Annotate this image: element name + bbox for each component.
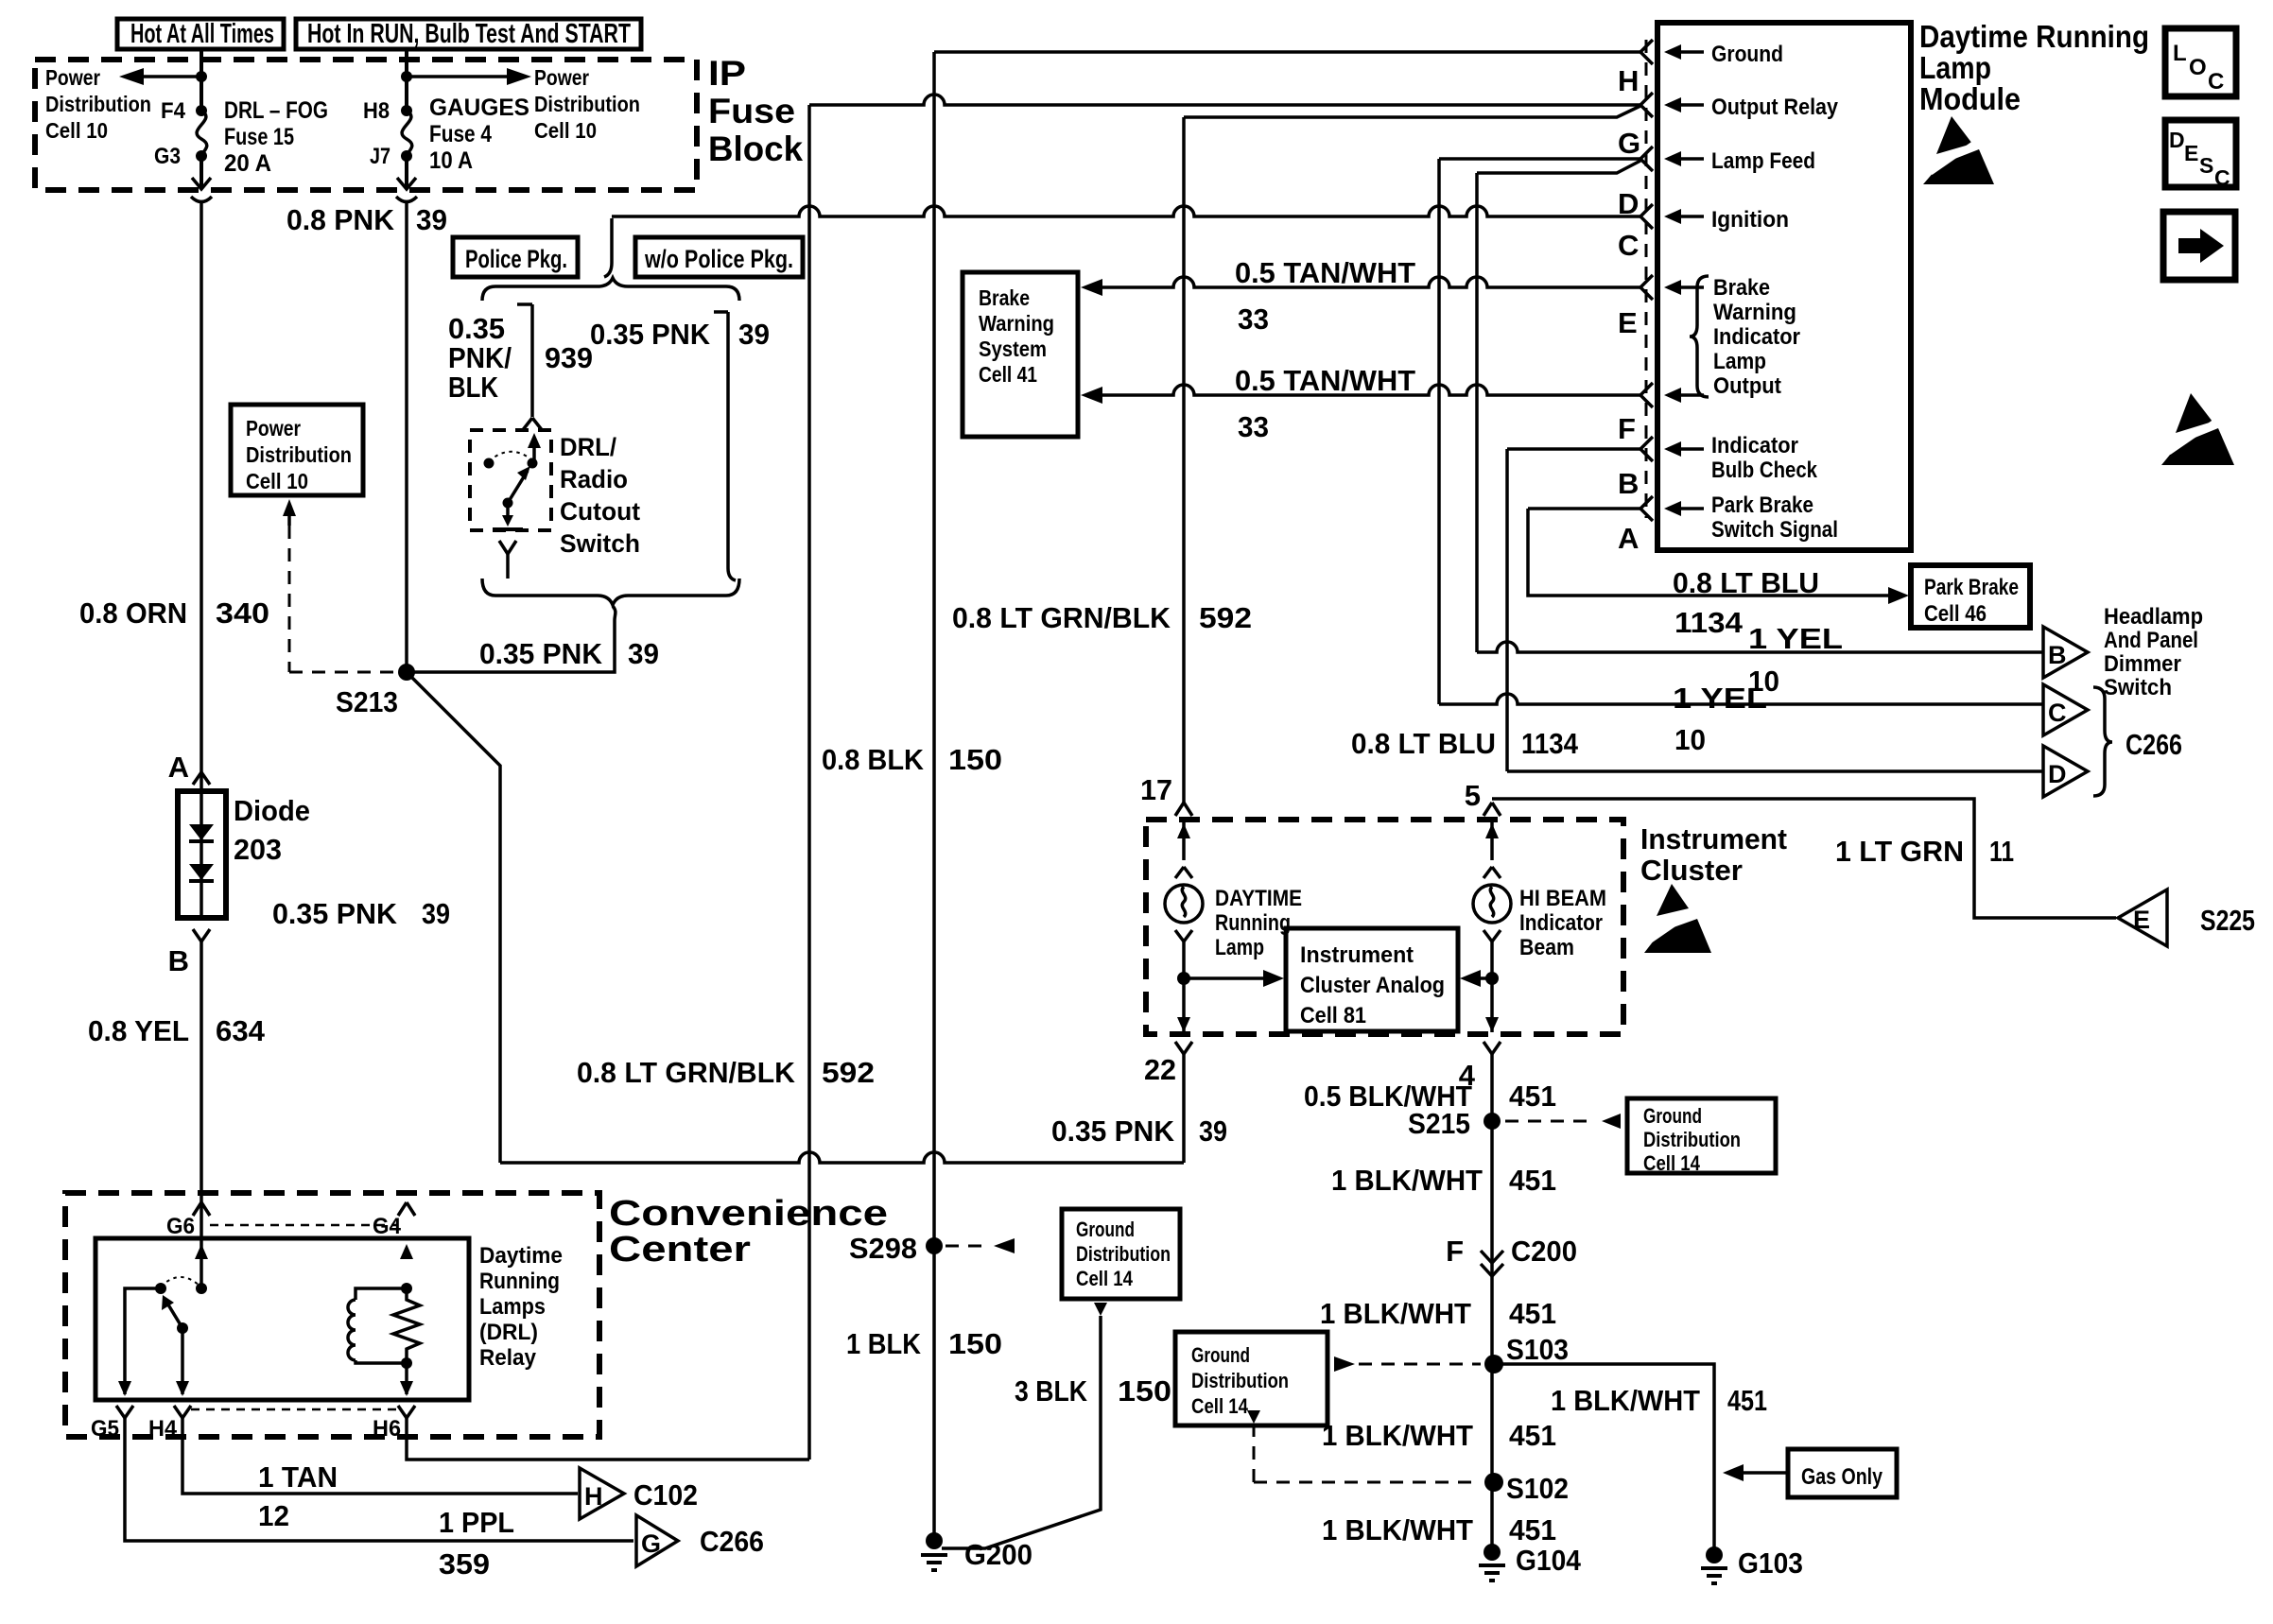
- svg-text:Fuse: Fuse: [708, 92, 795, 130]
- svg-text:Running: Running: [479, 1269, 560, 1294]
- wire label 1 BLK/WHT 451 between S103 S102: [1322, 1419, 1556, 1452]
- svg-text:G200: G200: [964, 1538, 1032, 1571]
- wire label 0.35 PNK 39 below S213: [272, 897, 450, 930]
- svg-text:H6: H6: [373, 1416, 401, 1442]
- Daytime Running Lamp Module title: [1919, 19, 2149, 116]
- svg-text:1 BLK/WHT: 1 BLK/WHT: [1551, 1384, 1700, 1417]
- svg-text:Cell 10: Cell 10: [534, 118, 597, 143]
- svg-text:S102: S102: [1506, 1472, 1569, 1505]
- connector A of diode: [168, 751, 210, 785]
- svg-text:Hot In RUN, Bulb Test And STAR: Hot In RUN, Bulb Test And START: [307, 19, 631, 49]
- svg-text:Lamps: Lamps: [479, 1294, 546, 1320]
- svg-text:Lamp: Lamp: [1713, 349, 1766, 374]
- svg-text:1 PPL: 1 PPL: [439, 1506, 514, 1539]
- IC pin 17 connector: [1140, 773, 1192, 816]
- svg-text:Lamp Feed: Lamp Feed: [1711, 148, 1815, 174]
- relay connector dashed link top: [210, 1224, 398, 1227]
- svg-text:17: 17: [1140, 773, 1172, 806]
- svg-text:Cell 41: Cell 41: [979, 362, 1037, 387]
- svg-text:634: 634: [216, 1014, 266, 1047]
- svg-text:39: 39: [1199, 1114, 1227, 1148]
- svg-text:Indicator: Indicator: [1713, 324, 1800, 350]
- svg-text:0.8 LT BLU: 0.8 LT BLU: [1351, 727, 1496, 760]
- svg-text:Cutout: Cutout: [560, 497, 640, 526]
- svg-text:Module: Module: [1919, 81, 2021, 116]
- svg-text:1 BLK/WHT: 1 BLK/WHT: [1331, 1164, 1483, 1197]
- svg-text:S298: S298: [849, 1232, 917, 1265]
- lamp feed wire 1: [1439, 157, 1640, 161]
- svg-text:0.5 TAN/WHT: 0.5 TAN/WHT: [1235, 364, 1415, 397]
- svg-text:0.8 PNK: 0.8 PNK: [286, 203, 395, 236]
- svg-text:0.8 LT GRN/BLK: 0.8 LT GRN/BLK: [952, 601, 1171, 634]
- svg-text:F: F: [1446, 1235, 1464, 1268]
- IP Fuse Block dashed box: [35, 60, 697, 190]
- HI BEAM Indicator bulb: [1473, 885, 1511, 923]
- Instrument Cluster dashed box: [1146, 820, 1623, 1034]
- svg-text:Power: Power: [45, 65, 100, 90]
- svg-text:H: H: [1618, 64, 1639, 97]
- DAYTIME Running Lamp bulb: [1165, 885, 1203, 923]
- wire S103 to G103: [1494, 1364, 1714, 1555]
- wire label 0.8 ORN 340: [79, 596, 269, 630]
- wire label 0.5 BLK/WHT 451: [1304, 1080, 1556, 1113]
- svg-text:Power: Power: [534, 65, 589, 90]
- ESD symbol inside instrument cluster: [1644, 884, 1711, 953]
- svg-text:203: 203: [234, 833, 282, 866]
- svg-text:3 BLK: 3 BLK: [1015, 1374, 1088, 1408]
- svg-text:Ground: Ground: [1643, 1104, 1702, 1128]
- svg-text:S: S: [2199, 153, 2213, 178]
- C266 brace and label: [2093, 687, 2182, 796]
- svg-text:Park Brake: Park Brake: [1711, 492, 1813, 518]
- wire pin H Ground row: [934, 50, 1640, 54]
- svg-text:H: H: [584, 1482, 603, 1511]
- svg-text:39: 39: [628, 637, 659, 670]
- wire label 1 TAN 12: [258, 1460, 338, 1532]
- svg-text:Power: Power: [246, 416, 301, 441]
- dimmer row C wire 1 YEL 10: [1439, 682, 2042, 756]
- svg-text:Fuse 4: Fuse 4: [429, 121, 492, 147]
- wire stub from ignition row down to brace: [604, 218, 612, 277]
- svg-text:B: B: [1618, 467, 1639, 500]
- svg-text:G104: G104: [1516, 1544, 1582, 1577]
- arrow to Power Distribution left: [119, 68, 207, 85]
- Convenience Center title: [609, 1194, 888, 1270]
- svg-text:G5: G5: [91, 1416, 119, 1442]
- svg-text:1134: 1134: [1521, 727, 1579, 760]
- wire label 1 BLK/WHT 451 above C200: [1331, 1164, 1556, 1197]
- svg-text:C: C: [2208, 69, 2224, 95]
- svg-text:S225: S225: [2200, 904, 2255, 937]
- in-line connector C200 pin F: [1446, 1235, 1577, 1276]
- svg-text:0.35 PNK: 0.35 PNK: [590, 318, 711, 351]
- Gas Only box: [1788, 1449, 1897, 1497]
- svg-text:Switch: Switch: [2104, 675, 2172, 700]
- Ground Distribution Cell 14 box right: [1627, 1098, 1776, 1175]
- relay switch contacts: [118, 1244, 208, 1396]
- wire H4 to C102 with tick: [182, 1418, 578, 1494]
- hi beam wire top: [1484, 820, 1501, 878]
- svg-text:1 YEL: 1 YEL: [1748, 622, 1843, 655]
- dashed reference S298 to ground distribution: [946, 1238, 1015, 1253]
- DRL/Radio Cutout Switch label: [560, 433, 640, 558]
- vertical wire to dimmer B row: [1475, 173, 1479, 652]
- wire label 1 LT GRN 11: [1835, 835, 2014, 868]
- G4 connector into convenience center: [373, 1202, 415, 1239]
- wire row F 0.5 TAN/WHT: [1081, 385, 1640, 404]
- svg-text:0.35 PNK: 0.35 PNK: [272, 897, 398, 930]
- splice S213: [336, 664, 415, 718]
- svg-text:Cluster Analog: Cluster Analog: [1300, 973, 1445, 998]
- fuse GAUGES value label: [429, 95, 529, 174]
- svg-text:592: 592: [1199, 601, 1252, 634]
- svg-text:Output: Output: [1713, 373, 1781, 399]
- ESD symbol at module: [1923, 116, 1994, 184]
- svg-text:DRL – FOG: DRL – FOG: [224, 97, 328, 124]
- svg-text:10 A: 10 A: [429, 147, 473, 174]
- wire from Hot At All Times to fuse F4: [200, 49, 203, 111]
- svg-text:Convenience: Convenience: [609, 1194, 888, 1234]
- splice S102: [1484, 1472, 1569, 1505]
- arrow icon box: [2163, 212, 2235, 280]
- IP Fuse Block title: [708, 54, 803, 168]
- svg-text:33: 33: [1238, 410, 1269, 443]
- Instrument Cluster Analog Cell 81 box: [1286, 928, 1458, 1031]
- Power Distribution Cell 10 box middle: [231, 405, 363, 495]
- module pin A Park Brake Switch Signal: [1618, 492, 1838, 555]
- wire label 1 PPL 359: [439, 1506, 514, 1581]
- ground G200: [921, 1532, 1032, 1571]
- svg-text:Cell 10: Cell 10: [45, 118, 108, 143]
- wire from IC 4 down to G104: [1490, 1054, 1494, 1552]
- svg-text:1 BLK/WHT: 1 BLK/WHT: [1320, 1297, 1471, 1330]
- diagonal wire from S213 to lower run: [407, 672, 500, 1163]
- svg-text:Cell 46: Cell 46: [1924, 601, 1987, 627]
- svg-text:C: C: [2048, 699, 2067, 727]
- diode 203 label: [234, 794, 310, 866]
- svg-text:Distribution: Distribution: [1191, 1369, 1289, 1392]
- svg-text:E: E: [2133, 906, 2150, 934]
- svg-text:Gas Only: Gas Only: [1801, 1464, 1883, 1490]
- svg-text:0.8 YEL: 0.8 YEL: [88, 1014, 189, 1047]
- fuse GAUGES H8/J7 symbol: [363, 98, 412, 169]
- Ground Distribution Cell 14 box left: [1062, 1209, 1180, 1299]
- connector B of diode: [168, 929, 210, 977]
- svg-text:Cell 14: Cell 14: [1191, 1394, 1249, 1418]
- svg-text:Daytime Running: Daytime Running: [1919, 19, 2149, 54]
- svg-text:HI BEAM: HI BEAM: [1519, 886, 1606, 911]
- svg-text:G4: G4: [373, 1214, 402, 1239]
- connector triangle D: [2043, 746, 2088, 797]
- dimmer row D wire: [1507, 769, 2042, 773]
- svg-text:0.35 PNK: 0.35 PNK: [479, 637, 603, 670]
- svg-text:Cluster: Cluster: [1640, 854, 1743, 887]
- svg-text:Daytime: Daytime: [479, 1243, 563, 1269]
- wire label 1 BLK/WHT 451 below C200: [1320, 1297, 1556, 1330]
- svg-text:IP: IP: [708, 54, 746, 93]
- fuse DRL-FOG F4/G3 symbol: [154, 98, 207, 169]
- svg-text:Police Pkg.: Police Pkg.: [465, 245, 567, 273]
- svg-text:Switch: Switch: [560, 529, 640, 558]
- svg-text:Cell 14: Cell 14: [1643, 1151, 1701, 1175]
- brake warning indicator lamp output label with brace: [1690, 275, 1800, 399]
- svg-text:D: D: [2048, 760, 2067, 788]
- svg-text:Relay: Relay: [479, 1345, 537, 1371]
- wire 0.8 YEL diode to convenience center: [200, 942, 203, 1288]
- svg-text:F: F: [1618, 412, 1636, 445]
- svg-text:39: 39: [422, 897, 450, 930]
- svg-text:10: 10: [1674, 723, 1706, 756]
- Power Distribution Cell 10 text right: [534, 65, 640, 143]
- svg-text:Distribution: Distribution: [534, 92, 640, 116]
- Convenience Center dashed box: [65, 1193, 599, 1437]
- label box Hot In RUN, Bulb Test And START: [296, 19, 641, 49]
- G6 connector into convenience center: [166, 1202, 210, 1239]
- svg-text:L: L: [2173, 41, 2187, 66]
- module pin D Lamp Feed: [1618, 147, 1815, 220]
- connector triangle E S225: [2118, 890, 2255, 946]
- IC pin 22 connector: [1144, 1042, 1192, 1086]
- wire label 0.8 LT GRN/BLK 592 lower: [577, 1056, 875, 1089]
- svg-text:A: A: [168, 751, 189, 784]
- wire from IC 22 down: [1182, 1054, 1186, 1163]
- fuse F4 value label: [224, 97, 328, 177]
- splice S298: [849, 1232, 943, 1265]
- dashed reference to S102: [1247, 1410, 1481, 1482]
- connector below cutout switch: [499, 541, 516, 579]
- svg-text:340: 340: [216, 596, 269, 630]
- connector above DRL cutout switch: [522, 418, 543, 431]
- long wire S213 branch to IC22 with hops: [500, 1152, 1184, 1163]
- svg-text:0.35: 0.35: [448, 312, 505, 345]
- svg-text:1 YEL: 1 YEL: [1673, 682, 1767, 715]
- svg-text:150: 150: [948, 743, 1002, 776]
- svg-text:C266: C266: [2126, 728, 2182, 761]
- svg-text:H4: H4: [148, 1416, 178, 1442]
- svg-text:PNK/: PNK/: [448, 341, 512, 374]
- location reference icon LOC: [2165, 28, 2236, 96]
- svg-text:G: G: [1618, 127, 1640, 160]
- svg-text:S103: S103: [1506, 1333, 1569, 1366]
- svg-text:592: 592: [822, 1056, 875, 1089]
- connector triangle B: [2043, 627, 2088, 678]
- svg-text:39: 39: [416, 203, 447, 236]
- svg-text:C102: C102: [633, 1478, 698, 1512]
- wire from brace down to S213: [413, 606, 616, 672]
- svg-text:Dimmer: Dimmer: [2104, 651, 2181, 677]
- wire label 0.8 LT GRN/BLK 592 upper: [952, 601, 1252, 634]
- wire below daytime lamp with arrow to cluster analog: [1175, 930, 1284, 1032]
- svg-text:Bulb Check: Bulb Check: [1711, 458, 1818, 483]
- svg-text:Warning: Warning: [979, 311, 1054, 336]
- w/o Police Pkg. label box: [635, 237, 803, 277]
- wire label 0.35 PNK 39 at S213: [479, 637, 659, 670]
- svg-text:Ground: Ground: [1076, 1218, 1135, 1241]
- second output relay wire to cluster pin 17: [1184, 106, 1640, 117]
- wire 3 BLK 150 to G200: [942, 1303, 1107, 1548]
- svg-text:B: B: [2048, 641, 2067, 669]
- dimmer row B wire 1 YEL 10: [1477, 622, 2042, 698]
- splice S215: [1408, 1107, 1501, 1140]
- wire label 0.5 TAN/WHT 33 row F: [1235, 364, 1415, 443]
- module pin C Ignition: [1618, 204, 1789, 262]
- svg-text:Distribution: Distribution: [1643, 1128, 1741, 1151]
- svg-text:Instrument: Instrument: [1300, 942, 1414, 968]
- svg-text:1 BLK/WHT: 1 BLK/WHT: [1322, 1513, 1473, 1546]
- svg-text:G103: G103: [1738, 1546, 1803, 1580]
- DAYTIME Running Lamp label: [1215, 886, 1302, 960]
- module pin G Output Relay: [1618, 93, 1839, 160]
- daytime running lamp wire top: [1175, 820, 1192, 878]
- Ground Distribution Cell 14 box middle: [1175, 1332, 1327, 1425]
- svg-text:451: 451: [1509, 1513, 1556, 1546]
- alternatives top brace: [482, 278, 739, 301]
- svg-text:Ignition: Ignition: [1711, 207, 1789, 233]
- svg-text:w/o Police Pkg.: w/o Police Pkg.: [644, 245, 793, 273]
- svg-text:Diode: Diode: [234, 794, 310, 827]
- wire label 1 BLK 150: [846, 1327, 1002, 1360]
- wire vertical to instrument cluster pin 17: [1182, 117, 1186, 803]
- ground G103: [1701, 1546, 1803, 1583]
- ESD symbol right side: [2161, 393, 2234, 465]
- wire B pink down to S213: [405, 201, 408, 672]
- hi beam wire down with arrow into cluster analog: [1460, 930, 1501, 1032]
- svg-text:Block: Block: [708, 130, 803, 168]
- vertical wire 0.8 LT BLU to dimmer D row: [1505, 449, 1509, 771]
- module pin H Ground: [1618, 40, 1783, 97]
- arrow from Gas Only to ground wire: [1723, 1464, 1786, 1481]
- dashed reference to S103: [1334, 1356, 1481, 1372]
- module connector dashed line: [1645, 40, 1648, 518]
- wire label 1 BLK/WHT 451 to G104: [1322, 1513, 1556, 1546]
- label box Hot At All Times: [117, 19, 284, 49]
- Instrument Cluster title: [1640, 822, 1787, 887]
- svg-text:0.8 LT GRN/BLK: 0.8 LT GRN/BLK: [577, 1056, 796, 1089]
- svg-text:Headlamp: Headlamp: [2104, 604, 2203, 630]
- wire label 0.8 PNK 39: [286, 203, 447, 236]
- wire J7 to IP box exit arrow: [396, 156, 417, 202]
- svg-text:H8: H8: [363, 98, 390, 124]
- IC pin 5 connector: [1465, 779, 1501, 816]
- wire label 0.8 LT BLU 1134 left: [1351, 727, 1579, 760]
- DRL/Radio Cutout Switch internals: [484, 433, 542, 529]
- svg-text:DRL/: DRL/: [560, 433, 616, 461]
- svg-text:G6: G6: [166, 1214, 195, 1239]
- svg-text:Lamp: Lamp: [1919, 50, 1991, 85]
- svg-text:J7: J7: [370, 144, 390, 169]
- wire label 0.8 BLK 150: [822, 743, 1002, 776]
- svg-text:0.35 PNK: 0.35 PNK: [1051, 1114, 1175, 1148]
- svg-text:451: 451: [1509, 1419, 1556, 1452]
- Daytime Running Lamps DRL Relay label: [479, 1243, 563, 1371]
- H6 connector below relay: [373, 1406, 415, 1442]
- svg-text:Warning: Warning: [1713, 300, 1796, 325]
- svg-text:Hot At All Times: Hot At All Times: [130, 19, 274, 49]
- wire from Hot In RUN to fuse H8: [405, 49, 408, 111]
- police branch bracket 0.35 PNK/BLK 939: [448, 304, 593, 417]
- svg-text:359: 359: [439, 1547, 490, 1581]
- svg-text:Indicator: Indicator: [1519, 910, 1603, 936]
- svg-text:C266: C266: [700, 1525, 764, 1558]
- IC pin 4 connector: [1459, 1042, 1501, 1092]
- svg-text:0.8 LT BLU: 0.8 LT BLU: [1673, 566, 1819, 599]
- splice S103: [1484, 1333, 1569, 1373]
- svg-text:1 BLK/WHT: 1 BLK/WHT: [1322, 1419, 1473, 1452]
- svg-text:Running: Running: [1215, 910, 1291, 936]
- ground wire vertical to G200: [932, 52, 936, 1541]
- wire output relay row with hop: [809, 95, 1640, 105]
- wire label 0.8 LT BLU 1134 park brake: [1673, 566, 1819, 639]
- svg-text:0.5 TAN/WHT: 0.5 TAN/WHT: [1235, 256, 1415, 289]
- dashed reference S215 to ground distribution: [1505, 1114, 1621, 1129]
- wire label 0.8 YEL 634: [88, 1014, 266, 1047]
- svg-text:Indicator: Indicator: [1711, 433, 1798, 458]
- HI BEAM Indicator Beam label: [1519, 886, 1606, 960]
- wire label 0.35 PNK 39 below IC: [1051, 1114, 1227, 1148]
- module pin B Indicator Bulb Check: [1618, 433, 1818, 500]
- svg-text:11: 11: [1989, 835, 2014, 868]
- svg-text:20 A: 20 A: [224, 150, 271, 177]
- svg-text:BLK: BLK: [448, 371, 499, 404]
- wire G3 to IP box exit arrow: [191, 156, 212, 202]
- svg-text:0.8 BLK: 0.8 BLK: [822, 743, 925, 776]
- svg-text:1134: 1134: [1674, 606, 1744, 639]
- wire label 3 BLK 150: [1015, 1374, 1171, 1408]
- svg-text:Distribution: Distribution: [1076, 1242, 1171, 1266]
- ground G104: [1479, 1544, 1582, 1581]
- module pin F: [1618, 383, 1704, 445]
- G5 connector below relay: [91, 1406, 133, 1442]
- svg-text:Radio: Radio: [560, 465, 628, 493]
- svg-text:Distribution: Distribution: [45, 92, 151, 116]
- svg-text:Beam: Beam: [1519, 935, 1574, 960]
- svg-text:Ground: Ground: [1191, 1343, 1250, 1367]
- output relay vertical to convenience center: [807, 105, 811, 1460]
- DRL relay box: [95, 1238, 469, 1400]
- svg-text:451: 451: [1509, 1080, 1556, 1113]
- Brake Warning System Cell 41 box: [963, 272, 1078, 437]
- H4 connector below relay: [148, 1406, 191, 1442]
- park brake signal wire to park brake cell: [1528, 509, 1909, 604]
- wire A orange down to diode: [200, 201, 203, 791]
- svg-text:Distribution: Distribution: [246, 442, 352, 467]
- wire label 0.5 TAN/WHT 33 row E: [1235, 256, 1415, 336]
- svg-text:F4: F4: [161, 98, 186, 124]
- wire label 1 BLK/WHT 451 to G103: [1551, 1384, 1767, 1417]
- wire row E 0.5 TAN/WHT: [1081, 277, 1640, 296]
- svg-text:A: A: [1618, 522, 1639, 555]
- svg-text:C: C: [1618, 229, 1639, 262]
- svg-text:33: 33: [1238, 302, 1269, 336]
- svg-text:S213: S213: [336, 685, 398, 718]
- svg-text:Brake: Brake: [1713, 275, 1770, 301]
- svg-text:150: 150: [948, 1327, 1002, 1360]
- svg-text:939: 939: [545, 341, 593, 374]
- svg-text:451: 451: [1509, 1164, 1556, 1197]
- vertical wire to dimmer C row: [1437, 159, 1441, 704]
- svg-text:12: 12: [258, 1499, 289, 1532]
- lamp feed wire 2: [1477, 161, 1640, 173]
- svg-text:22: 22: [1144, 1053, 1176, 1086]
- svg-text:1 BLK: 1 BLK: [846, 1327, 922, 1360]
- svg-text:39: 39: [738, 318, 770, 351]
- svg-text:Cell 81: Cell 81: [1300, 1003, 1366, 1028]
- ignition row wire with hops: [612, 206, 1640, 216]
- svg-text:Center: Center: [609, 1230, 751, 1270]
- module pin E: [1618, 275, 1704, 339]
- svg-text:Instrument: Instrument: [1640, 822, 1787, 855]
- svg-text:And Panel: And Panel: [2104, 628, 2198, 653]
